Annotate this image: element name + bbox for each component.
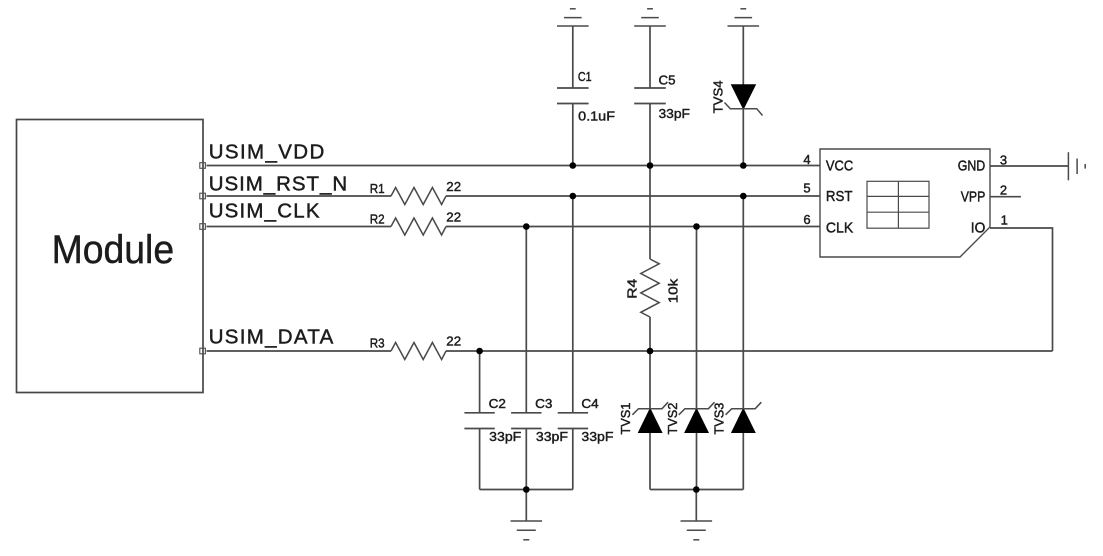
svg-text:5: 5 — [803, 180, 810, 195]
svg-text:R4: R4 — [625, 279, 640, 299]
svg-text:USIM_CLK: USIM_CLK — [209, 199, 320, 222]
svg-text:R2: R2 — [370, 211, 385, 226]
svg-text:VPP: VPP — [961, 190, 986, 206]
svg-text:TVS2: TVS2 — [665, 403, 680, 435]
svg-text:C1: C1 — [578, 69, 592, 84]
svg-text:IO: IO — [971, 220, 986, 236]
svg-text:USIM_RST_N: USIM_RST_N — [209, 172, 348, 195]
svg-text:33pF: 33pF — [659, 106, 691, 121]
svg-text:22: 22 — [446, 334, 461, 349]
svg-text:22: 22 — [446, 179, 461, 194]
svg-text:33pF: 33pF — [581, 429, 613, 444]
svg-text:C5: C5 — [659, 72, 676, 87]
svg-text:4: 4 — [803, 152, 810, 167]
svg-text:VCC: VCC — [826, 158, 853, 174]
svg-text:GND: GND — [958, 158, 986, 174]
svg-text:RST: RST — [826, 189, 853, 205]
svg-text:TVS4: TVS4 — [711, 80, 726, 113]
svg-text:33pF: 33pF — [489, 429, 521, 444]
svg-text:10k: 10k — [666, 278, 681, 303]
svg-text:3: 3 — [1000, 153, 1007, 168]
svg-text:22: 22 — [446, 210, 461, 225]
svg-text:2: 2 — [1000, 182, 1007, 197]
svg-text:USIM_VDD: USIM_VDD — [209, 140, 325, 163]
svg-text:C3: C3 — [535, 396, 552, 411]
svg-text:1: 1 — [1001, 213, 1008, 228]
svg-text:0.1uF: 0.1uF — [578, 109, 615, 124]
svg-text:R3: R3 — [370, 336, 385, 351]
svg-text:C2: C2 — [489, 396, 506, 411]
svg-text:Module: Module — [52, 228, 175, 272]
svg-text:CLK: CLK — [826, 220, 854, 236]
svg-text:USIM_DATA: USIM_DATA — [209, 325, 334, 348]
svg-text:R1: R1 — [370, 181, 385, 196]
svg-text:C4: C4 — [581, 396, 598, 411]
svg-text:6: 6 — [803, 212, 810, 227]
svg-text:TVS3: TVS3 — [711, 403, 726, 435]
svg-text:33pF: 33pF — [536, 429, 568, 444]
svg-text:TVS1: TVS1 — [618, 403, 633, 435]
